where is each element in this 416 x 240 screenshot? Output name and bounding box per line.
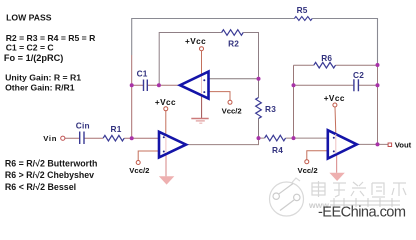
svg-text:Vout: Vout: [395, 140, 412, 149]
resistor R2: [222, 30, 244, 49]
node C2 left junction: [292, 83, 296, 87]
power arrow below U2: [159, 176, 174, 184]
node R3/R4 junction: [257, 136, 261, 140]
svg-text:+Vcc: +Vcc: [185, 37, 206, 46]
ground below U1: [191, 119, 208, 124]
terminal Vin: [43, 134, 65, 143]
op-amp U1: [180, 72, 209, 99]
wire right vertical to output node: [377, 65, 379, 145]
op-amp U3 supply stub top: [334, 107, 337, 133]
svg-text:R1: R1: [111, 124, 122, 134]
terminal Vcc/2 circle U1: [222, 100, 242, 115]
wire mid vertical R6/C2 left: [293, 65, 295, 138]
wire R5 loop top: [132, 19, 378, 65]
node R1 junction: [130, 136, 134, 140]
svg-text:Vcc/2: Vcc/2: [222, 107, 242, 116]
terminal +Vcc circle U1: [185, 37, 206, 51]
svg-text:R2 = R3 = R4 = R5 = R: R2 = R3 = R4 = R5 = R: [6, 33, 96, 43]
svg-text:LOW PASS: LOW PASS: [6, 12, 52, 22]
wire C1 row / A1 output: [132, 84, 181, 86]
svg-text:Vin: Vin: [43, 134, 57, 143]
svg-text:Unity Gain: R = R1: Unity Gain: R = R1: [5, 73, 81, 83]
wire left vertical C1 node to R1 node: [131, 55, 133, 138]
svg-text:R6: R6: [321, 53, 332, 63]
capacitor C1: [137, 69, 148, 91]
capacitor Cin: [76, 120, 90, 144]
wire C2 row: [294, 84, 378, 86]
node C1 right junction: [157, 83, 161, 87]
svg-text:+Vcc: +Vcc: [324, 94, 345, 103]
op-amp U1 supply stub top: [201, 51, 203, 75]
svg-text:C2: C2: [353, 70, 364, 80]
resistor R1: [103, 124, 124, 141]
terminal +Vcc circle U3: [324, 94, 345, 107]
svg-text:Other Gain: R/R1: Other Gain: R/R1: [5, 82, 75, 92]
svg-text:R3: R3: [265, 104, 276, 114]
op-amp U2 arrow stub: [165, 154, 167, 176]
svg-text:-EEChina.com: -EEChina.com: [318, 205, 406, 221]
terminal Vcc/2 circle U3: [298, 160, 318, 175]
node C2 right junction: [376, 83, 380, 87]
resistor R3: [256, 98, 276, 119]
resistor R4: [265, 135, 286, 155]
node R6 right junction: [376, 63, 380, 67]
resistor R5: [294, 5, 312, 21]
terminal Vout: [388, 140, 412, 149]
node A1 input junction: [257, 77, 261, 81]
wire R4 node to A3 input: [294, 137, 329, 139]
watermark chinese glyph blocks: [312, 181, 406, 197]
watermark logo circle: [270, 178, 304, 216]
svg-text:Vcc/2: Vcc/2: [298, 166, 318, 175]
terminal +Vcc circle U2: [155, 98, 176, 111]
wire R2 loop: [159, 33, 258, 86]
svg-text:R2: R2: [228, 39, 239, 49]
svg-text:C1: C1: [137, 69, 148, 79]
wire A3 output to Vout: [357, 143, 388, 145]
svg-text:R6 = R/√2 Butterworth: R6 = R/√2 Butterworth: [5, 158, 98, 168]
wire R3 vertical stubs: [258, 79, 260, 138]
svg-text:Fo = 1/(2pRC): Fo = 1/(2pRC): [4, 53, 63, 63]
wire A2 output to R4 node: [186, 138, 259, 145]
op-amp U3: [328, 130, 357, 158]
wire Vin row: [65, 137, 159, 139]
wire R6 row: [294, 64, 378, 66]
power arrow below U3: [329, 173, 344, 181]
op-amp U1 ground stub: [201, 95, 203, 118]
op-amp U3 arrow stub: [336, 154, 338, 173]
wire A3 plus input to Vcc/2: [307, 151, 328, 160]
svg-text:R4: R4: [272, 145, 283, 155]
wire A1 inverting input to R2/R3 node: [209, 78, 259, 80]
node output junction: [376, 142, 380, 146]
node C1 left junction: [130, 83, 134, 87]
svg-text:R6 > R/√2 Chebyshev: R6 > R/√2 Chebyshev: [5, 170, 94, 180]
op-amp U2 supply stub top: [165, 111, 167, 135]
svg-text:R6 < R/√2 Bessel: R6 < R/√2 Bessel: [5, 182, 76, 192]
svg-text:R5: R5: [297, 5, 308, 15]
watermark small line: [308, 198, 400, 210]
resistor R6: [314, 53, 336, 68]
node R4 right junction: [292, 136, 296, 140]
svg-text:Vcc/2: Vcc/2: [129, 166, 149, 175]
op-amp U2: [159, 132, 186, 158]
terminal Vcc/2 circle U2: [129, 161, 149, 175]
wire R4 row stubs: [259, 137, 294, 139]
wire A1 plus input to Vcc/2: [209, 92, 231, 101]
wire A2 minus input to Vcc/2: [138, 151, 159, 161]
svg-text:C1 = C2 = C: C1 = C2 = C: [6, 42, 54, 52]
svg-text:Cin: Cin: [76, 120, 90, 130]
svg-text:+Vcc: +Vcc: [155, 98, 176, 107]
capacitor C2: [353, 70, 364, 91]
